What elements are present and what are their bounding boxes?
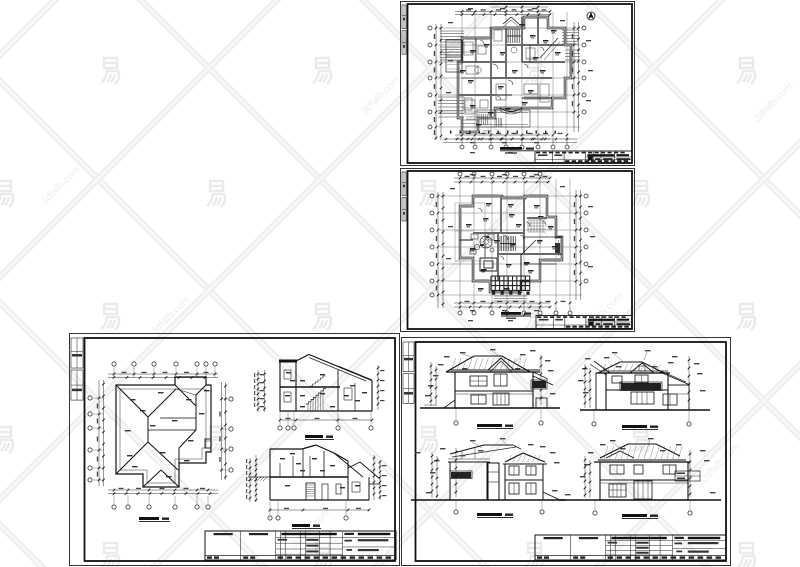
- elevation C middle tower: [487, 463, 499, 500]
- elevation C big roof slope: [450, 445, 513, 454]
- sheet2 windows: [463, 204, 471, 206]
- sheet1 terrace outline: [477, 110, 530, 127]
- sheet1 right axis bubbles: [582, 26, 586, 30]
- sheet3 inner frame: [85, 338, 396, 561]
- sheet2 lower terrace steps: [494, 295, 527, 297]
- sheet1 bay window: [500, 108, 522, 112]
- sheet2 top axis bubbles: [458, 172, 462, 176]
- elevation D leader lines: [612, 442, 622, 450]
- elevation B roof: [598, 362, 664, 373]
- sheet1 north arrow: [587, 12, 595, 20]
- svg-text:3dfafb.com: 3dfafb.com: [359, 74, 402, 117]
- sheet1 outer border: [401, 2, 635, 166]
- section 2-2 bottom dim line: [270, 509, 369, 511]
- elevation B left dim stack: [584, 364, 586, 408]
- sheet3 roof ridge marks: [130, 399, 136, 400]
- sheet1 stairs: [506, 29, 508, 43]
- elevation D title: [622, 514, 647, 517]
- sheet2 horizontal axis grid lines: [440, 195, 582, 197]
- elevation B leader lines: [614, 354, 624, 362]
- elevation A lower windows and door: [471, 395, 486, 404]
- sheet2 room text marks: [483, 218, 489, 220]
- sheet1 double-height diagonals: [540, 38, 558, 58]
- sheet2 void diagonal: [521, 240, 536, 255]
- sheet3 margin strip boxes: [71, 338, 83, 368]
- sheet1 left wing room: [446, 40, 462, 72]
- elevation B gable attic window: [639, 366, 645, 371]
- elevation D dimension marks: [588, 452, 594, 453]
- sheet1 right dimension lines: [573, 22, 575, 132]
- section 1-1 axis bubbles: [278, 426, 282, 430]
- sheet2 bathroom fixtures cluster: [474, 244, 479, 249]
- sheet1 door arcs: [493, 64, 498, 69]
- section 2-2 right annex: [348, 462, 360, 468]
- sheet2 roof overhang outline: [455, 203, 485, 261]
- section 1-1 bottom dim line: [280, 419, 372, 421]
- elevation B dimension marks: [585, 358, 591, 359]
- sheet3 title block body text: [278, 539, 288, 541]
- section 2-2 left dim stack: [249, 458, 251, 502]
- elevation D lower window grid: [609, 484, 626, 497]
- sheet3 roof plan right dimension lines: [221, 382, 223, 480]
- sheet1 margin strip boxes: [402, 5, 406, 29]
- sheet4 title block bottom strip cells: [537, 556, 542, 558]
- sheet2 right axis bubbles: [584, 194, 588, 198]
- section 1-1 left block: [280, 361, 296, 411]
- elevation A left dim stack: [430, 362, 432, 406]
- sheet2 balcony inner square: [480, 258, 497, 271]
- sheet1 long mid dimension lines: [443, 138, 577, 140]
- sheet2 inner frame: [408, 171, 633, 329]
- sheet1 vertical axis grid lines: [461, 12, 463, 144]
- section 1-1 roof slopes: [296, 355, 309, 362]
- sheet1 left axis bubbles: [428, 26, 432, 30]
- sheet3 roof inner eave line: [120, 389, 206, 483]
- elevation B title: [622, 425, 647, 428]
- elevation C right hip roof: [505, 453, 545, 462]
- elevation C right slope annex: [543, 492, 560, 500]
- elevation A title: [477, 424, 502, 427]
- sheet4 inner frame: [416, 342, 727, 561]
- sheet1 plan title: [500, 147, 522, 150]
- elevation A upper windows: [470, 376, 487, 386]
- sheet3 roof plan title: [139, 517, 159, 520]
- sheet2 title block text: [537, 316, 541, 318]
- elevation A dimension marks: [438, 364, 444, 365]
- sheet1 horizontal axis grid lines: [438, 27, 580, 29]
- elevation A roof hatch: [452, 358, 456, 369]
- sheet2 bottom dimension lines: [454, 302, 550, 304]
- section 1-1 left dim stack: [257, 370, 259, 412]
- elevation C left dim stack: [431, 452, 433, 498]
- elevation B right wing: [660, 372, 690, 385]
- sheet3 title block table: [205, 531, 396, 560]
- sheet1 windows: [465, 36, 488, 38]
- sheet2 right window sill mark: [555, 243, 560, 253]
- sheet3 title block header text: [214, 533, 233, 535]
- sheet1 right terrace slat lines: [562, 29, 579, 31]
- elevation A right balcony dark rail: [532, 381, 546, 388]
- sheet3 chimney: [205, 439, 211, 448]
- elevation C left rail dark: [451, 472, 471, 478]
- elevation B lower door and windows: [631, 392, 654, 404]
- sheet2 left axis bubbles: [430, 194, 434, 198]
- sheet2 right dimension lines: [575, 190, 577, 300]
- elevation C ground line: [411, 499, 566, 501]
- sheet3 roof plan bottom dimension lines: [108, 489, 218, 491]
- sheet2 terrace column heads: [492, 292, 495, 295]
- sheet3 roof plan axis bubbles right: [229, 397, 233, 401]
- sheet3 roof plan left dimension lines: [98, 380, 100, 486]
- sheet1 bathroom fixtures: [494, 30, 502, 41]
- elevation D left dim stack: [584, 456, 586, 498]
- elevation C title: [477, 513, 502, 516]
- sheet1 inner frame: [408, 4, 633, 163]
- section 1-1 stair zigzag: [306, 389, 326, 404]
- elevation A left steps: [428, 400, 455, 408]
- sheet1 dimension leader marks: [448, 22, 453, 23]
- section 1-1 window rects: [284, 370, 291, 379]
- section 1-1 interior marks: [286, 372, 291, 373]
- sheet2 bottom axis bubbles: [458, 311, 462, 315]
- sheet2 round stair: [480, 236, 492, 248]
- section 2-2 interior door rects: [306, 483, 315, 500]
- elevation B left wing roof: [594, 361, 610, 373]
- sheet4 margin strip boxes: [403, 342, 414, 372]
- elevation C axis bubbles: [454, 510, 458, 514]
- elevation C dimension marks: [440, 448, 446, 449]
- sheet1 furniture details: [464, 42, 473, 55]
- sheet1 title block text: [536, 152, 540, 154]
- sheet2 dimension leader marks: [450, 188, 455, 189]
- sheet1 top porch gable: [503, 17, 511, 24]
- elevation B balcony rail dark: [621, 383, 661, 390]
- sheet1 exterior walls: [458, 17, 571, 132]
- watermark diagonal url text: [39, 74, 795, 550]
- elevation C right block: [505, 464, 543, 500]
- elevation C leader lines: [472, 442, 482, 448]
- sheet2 interior walls: [473, 232, 524, 234]
- sheet1 room text marks: [470, 50, 476, 52]
- sheet2 vertical axis grid lines: [459, 179, 461, 310]
- sheet1 left dimension lines: [435, 24, 437, 140]
- sheet1 bottom axis bubbles: [460, 145, 464, 149]
- sheet2 door arcs: [503, 235, 508, 240]
- sheet3 roof plan axis bubbles left: [88, 396, 92, 400]
- sheet2 bathroom grid: [527, 220, 529, 232]
- section 2-2 outline: [269, 449, 271, 500]
- elevation D upper windows: [610, 465, 624, 474]
- elevation B axis bubbles: [592, 422, 596, 426]
- sheet1 bottom dimension lines: [455, 134, 550, 136]
- sheet2 top dimension lines: [454, 177, 550, 179]
- svg-text:3dfafb.com: 3dfafb.com: [752, 81, 795, 124]
- sheet2 plan title: [501, 312, 521, 315]
- sheet1 marks row below terrace: [450, 131, 451, 134]
- sheet3 outer border: [70, 334, 400, 566]
- elevation D body: [600, 462, 688, 500]
- section 2-2 right dim stack: [373, 455, 375, 500]
- sheet2 left dimension lines: [437, 192, 439, 308]
- elevation A leader lines: [462, 354, 475, 358]
- sheet2 exterior walls: [460, 196, 562, 292]
- elevation A roof: [446, 356, 530, 372]
- elevation D right annotation box: [675, 471, 700, 481]
- sheet2 stair hatch: [499, 236, 501, 251]
- sheet3 roof plan axis bubbles top: [112, 362, 116, 366]
- elevation C left flat wing: [450, 462, 488, 500]
- sheet2 outer border: [401, 169, 635, 332]
- sheet4 title block body text: [608, 542, 618, 544]
- elevation A right wing: [533, 376, 553, 385]
- section 2-2 axis bubbles: [268, 516, 272, 520]
- elevation D ground line: [560, 499, 721, 501]
- elevation B body: [606, 373, 668, 410]
- elevation B upper windows: [612, 376, 622, 383]
- sheet1 title block table: [535, 151, 632, 163]
- sheet3 roof plan top dimension lines: [108, 373, 218, 375]
- elevation B ground line: [580, 409, 710, 411]
- section 2-2 ground hatch: [248, 477, 252, 481]
- sheet4 title block header text: [544, 537, 563, 539]
- elevation C windows: [509, 466, 519, 475]
- sheet3 roof outline: [116, 377, 211, 487]
- elevation D central door: [634, 481, 652, 499]
- sheet1 top dimension lines: [455, 11, 550, 13]
- section 2-2 floors: [270, 476, 348, 478]
- section 1-1 title: [305, 435, 323, 438]
- section 2-2 title: [292, 524, 310, 527]
- section 1-1 walls and floors: [371, 381, 373, 412]
- elevation A body: [455, 372, 533, 408]
- sheet2 terrace grid: [490, 276, 492, 291]
- sheet2 margin strip boxes: [402, 172, 406, 195]
- sheet3 roof plan axis bubbles bottom: [112, 505, 116, 509]
- sheet3 roof hips and valleys: [116, 385, 148, 417]
- sheet4 title block table: [535, 535, 726, 560]
- elevation D roof: [600, 444, 680, 458]
- sheet1 entrance steps: [494, 118, 496, 127]
- sheet2 title block table: [536, 316, 632, 329]
- elevation B roof hatch: [602, 364, 606, 372]
- elevation A axis bubbles: [454, 421, 458, 425]
- section 1-1 right dim lines: [377, 365, 379, 410]
- elevation D roof hatch: [604, 446, 608, 459]
- sheet4 outer border: [402, 338, 731, 566]
- sheet3 title block bottom strip cells: [207, 556, 212, 558]
- elevation A ground line: [420, 407, 560, 409]
- sheet1 interior walls: [490, 28, 492, 118]
- sheet1 left terrace slat lines: [440, 30, 464, 32]
- sheet1 terrace steps: [478, 114, 480, 125]
- elevation D axis bubbles: [593, 511, 597, 515]
- section 2-2 upper marks: [280, 458, 285, 459]
